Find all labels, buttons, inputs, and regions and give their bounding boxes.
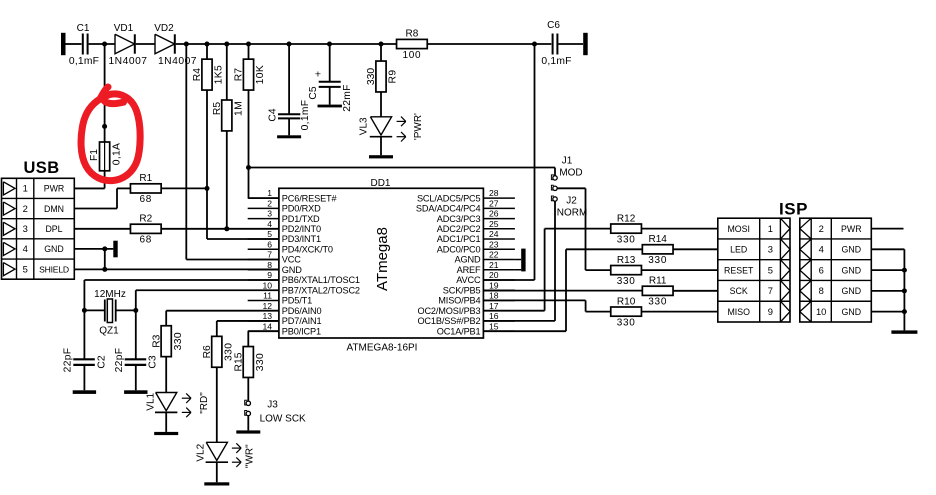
svg-text:3: 3 (768, 244, 773, 255)
svg-text:MISO: MISO (727, 307, 750, 317)
svg-text:PD7/AIN1: PD7/AIN1 (282, 316, 322, 326)
svg-text:330: 330 (617, 234, 636, 245)
svg-text:1: 1 (768, 223, 773, 234)
svg-text:OC1A/PB1: OC1A/PB1 (437, 326, 481, 336)
svg-text:R14: R14 (649, 234, 668, 245)
svg-text:4: 4 (819, 244, 824, 255)
svg-text:11: 11 (263, 291, 272, 301)
svg-text:330: 330 (648, 255, 667, 266)
svg-text:R4: R4 (192, 68, 203, 81)
svg-text:QZ1: QZ1 (99, 326, 119, 337)
svg-text:SCK: SCK (730, 286, 748, 296)
svg-text:R10: R10 (617, 296, 636, 307)
svg-text:22pF: 22pF (63, 348, 74, 373)
svg-text:13: 13 (262, 311, 272, 321)
svg-text:26: 26 (489, 209, 499, 219)
svg-text:PD6/AIN0: PD6/AIN0 (282, 306, 322, 316)
svg-text:ADC0/PC0: ADC0/PC0 (437, 244, 481, 254)
svg-text:PB0/ICP1: PB0/ICP1 (282, 326, 321, 336)
svg-text:J1: J1 (562, 156, 573, 167)
svg-text:25: 25 (489, 219, 499, 229)
svg-text:AGND: AGND (455, 255, 481, 265)
svg-text:NORM: NORM (557, 208, 588, 219)
svg-text:3: 3 (267, 209, 272, 219)
svg-text:22: 22 (489, 250, 499, 260)
svg-text:10: 10 (262, 280, 272, 290)
svg-text:18: 18 (489, 291, 499, 301)
svg-text:23: 23 (489, 239, 499, 249)
svg-text:R6: R6 (202, 345, 213, 358)
svg-text:MISO/PB4: MISO/PB4 (438, 296, 480, 306)
svg-text:DD1: DD1 (370, 178, 390, 189)
svg-text:PWR: PWR (841, 224, 862, 234)
svg-text:8: 8 (267, 260, 272, 270)
svg-text:ATmega8: ATmega8 (374, 227, 391, 291)
svg-text:6: 6 (819, 264, 824, 275)
svg-text:MOD: MOD (559, 168, 582, 179)
svg-text:PD4/XCK/T0: PD4/XCK/T0 (282, 244, 333, 254)
svg-text:GND: GND (842, 286, 862, 296)
svg-text:8: 8 (819, 285, 824, 296)
svg-text:PB7/XTAL2/TOSC2: PB7/XTAL2/TOSC2 (282, 285, 360, 295)
svg-text:DPL: DPL (45, 224, 62, 234)
svg-text:VL3: VL3 (359, 117, 370, 135)
svg-text:C4: C4 (268, 108, 279, 121)
svg-text:C3: C3 (148, 355, 159, 368)
svg-text:DMN: DMN (44, 204, 64, 214)
svg-text:21: 21 (489, 260, 499, 270)
svg-text:ADC3/PC3: ADC3/PC3 (437, 214, 481, 224)
svg-text:22mF: 22mF (342, 84, 353, 112)
svg-text:SCL/ADC5/PC5: SCL/ADC5/PC5 (417, 193, 481, 203)
svg-text:ADC2/PC2: ADC2/PC2 (437, 224, 481, 234)
svg-text:15: 15 (489, 321, 499, 331)
svg-text:330: 330 (617, 276, 636, 287)
svg-text:VL1: VL1 (146, 392, 157, 410)
svg-text:5: 5 (267, 229, 272, 239)
svg-text:2: 2 (819, 223, 824, 234)
svg-text:R11: R11 (649, 276, 667, 287)
svg-text:16: 16 (489, 311, 499, 321)
svg-text:330: 330 (366, 68, 377, 85)
svg-text:100: 100 (403, 50, 422, 61)
svg-text:GND: GND (842, 265, 862, 275)
svg-text:24: 24 (489, 229, 499, 239)
svg-text:0,1mF: 0,1mF (300, 100, 311, 131)
svg-text:4: 4 (267, 219, 272, 229)
svg-text:330: 330 (648, 297, 667, 308)
svg-text:1N4007: 1N4007 (158, 56, 197, 67)
svg-text:AVCC: AVCC (456, 275, 481, 285)
svg-text:1: 1 (267, 188, 272, 198)
svg-text:9: 9 (267, 270, 272, 280)
svg-text:LED: LED (730, 245, 747, 255)
svg-text:27: 27 (489, 198, 499, 208)
svg-text:ISP: ISP (779, 200, 808, 219)
svg-text:5: 5 (23, 263, 28, 274)
svg-text:R13: R13 (617, 255, 636, 266)
svg-text:PD2/INT0: PD2/INT0 (282, 224, 321, 234)
svg-text:+: + (315, 69, 321, 81)
svg-text:MOSI: MOSI (727, 224, 749, 234)
svg-text:330: 330 (173, 332, 184, 350)
svg-text:9: 9 (768, 306, 773, 317)
svg-text:68: 68 (140, 235, 153, 246)
svg-text:3: 3 (23, 223, 28, 234)
svg-text:C6: C6 (547, 20, 560, 31)
svg-text:2: 2 (23, 203, 28, 214)
svg-text:R7: R7 (234, 68, 245, 81)
svg-text:GND: GND (842, 307, 862, 317)
svg-text:1M: 1M (234, 101, 245, 116)
svg-text:28: 28 (489, 188, 499, 198)
svg-text:GND: GND (44, 244, 64, 254)
svg-text:R5: R5 (212, 102, 223, 115)
svg-text:R15: R15 (233, 352, 244, 371)
svg-text:C1: C1 (77, 23, 90, 34)
svg-text:VD1: VD1 (114, 23, 134, 34)
svg-text:R3: R3 (151, 334, 162, 347)
svg-text:R9: R9 (388, 70, 399, 84)
svg-text:SCK/PB5: SCK/PB5 (443, 285, 481, 295)
svg-text:PD5/T1: PD5/T1 (282, 296, 312, 306)
svg-text:1K5: 1K5 (214, 65, 225, 85)
svg-text:ATMEGA8-16PI: ATMEGA8-16PI (347, 343, 418, 354)
svg-text:0,1A: 0,1A (112, 143, 123, 165)
svg-text:VL2: VL2 (195, 443, 206, 461)
svg-text:7: 7 (768, 285, 773, 296)
svg-text:USB: USB (23, 159, 59, 177)
svg-text:SHIELD: SHIELD (39, 264, 69, 274)
svg-text:5: 5 (768, 264, 773, 275)
svg-text:330: 330 (617, 317, 636, 328)
svg-text:12MHz: 12MHz (94, 289, 126, 300)
svg-text:RESET: RESET (724, 265, 754, 275)
svg-text:OC1B/SS#/PB2: OC1B/SS#/PB2 (417, 316, 480, 326)
svg-text:4: 4 (23, 243, 28, 254)
svg-text:"RD": "RD" (199, 392, 210, 414)
svg-text:AREF: AREF (457, 265, 481, 275)
svg-text:OC2/MOSI/PB3: OC2/MOSI/PB3 (417, 306, 480, 316)
svg-text:20: 20 (489, 270, 499, 280)
svg-text:10: 10 (816, 306, 826, 317)
svg-text:VD2: VD2 (154, 23, 174, 34)
svg-text:0,1mF: 0,1mF (541, 56, 571, 67)
svg-text:C2: C2 (96, 355, 107, 368)
svg-text:PD1/TXD: PD1/TXD (282, 214, 320, 224)
svg-text:R1: R1 (139, 173, 152, 184)
svg-text:6: 6 (267, 239, 272, 249)
svg-text:22pF: 22pF (114, 348, 125, 373)
svg-text:F1: F1 (89, 149, 100, 161)
svg-text:PB6/XTAL1/TOSC1: PB6/XTAL1/TOSC1 (282, 275, 360, 285)
svg-text:68: 68 (140, 194, 153, 205)
svg-text:0,1mF: 0,1mF (69, 56, 99, 67)
svg-text:R2: R2 (139, 214, 152, 225)
svg-text:J2: J2 (566, 196, 577, 207)
svg-text:SDA/ADC4/PC4: SDA/ADC4/PC4 (416, 204, 481, 214)
svg-text:2: 2 (267, 198, 272, 208)
svg-text:1N4007: 1N4007 (108, 56, 147, 67)
svg-text:PWR: PWR (44, 184, 65, 194)
svg-text:12: 12 (262, 301, 272, 311)
svg-text:LOW SCK: LOW SCK (260, 414, 306, 425)
svg-text:10K: 10K (255, 65, 266, 85)
svg-text:PD0/RXD: PD0/RXD (282, 204, 321, 214)
svg-text:J3: J3 (267, 400, 278, 411)
svg-text:330: 330 (255, 353, 266, 371)
svg-text:'PWR': 'PWR' (413, 113, 424, 140)
svg-text:PC6/RESET#: PC6/RESET# (282, 193, 338, 203)
svg-text:14: 14 (262, 321, 272, 331)
svg-text:ADC1/PC1: ADC1/PC1 (437, 234, 481, 244)
svg-text:"WR": "WR" (245, 444, 256, 468)
svg-text:R8: R8 (406, 29, 419, 40)
svg-text:7: 7 (267, 250, 272, 260)
svg-text:VCC: VCC (282, 255, 301, 265)
svg-text:1: 1 (23, 183, 28, 194)
svg-text:R12: R12 (617, 213, 636, 224)
svg-text:GND: GND (282, 265, 302, 275)
svg-text:PD3/INT1: PD3/INT1 (282, 234, 321, 244)
svg-text:GND: GND (842, 245, 862, 255)
svg-text:17: 17 (489, 301, 499, 311)
svg-text:C5: C5 (308, 86, 319, 99)
svg-text:19: 19 (489, 280, 499, 290)
